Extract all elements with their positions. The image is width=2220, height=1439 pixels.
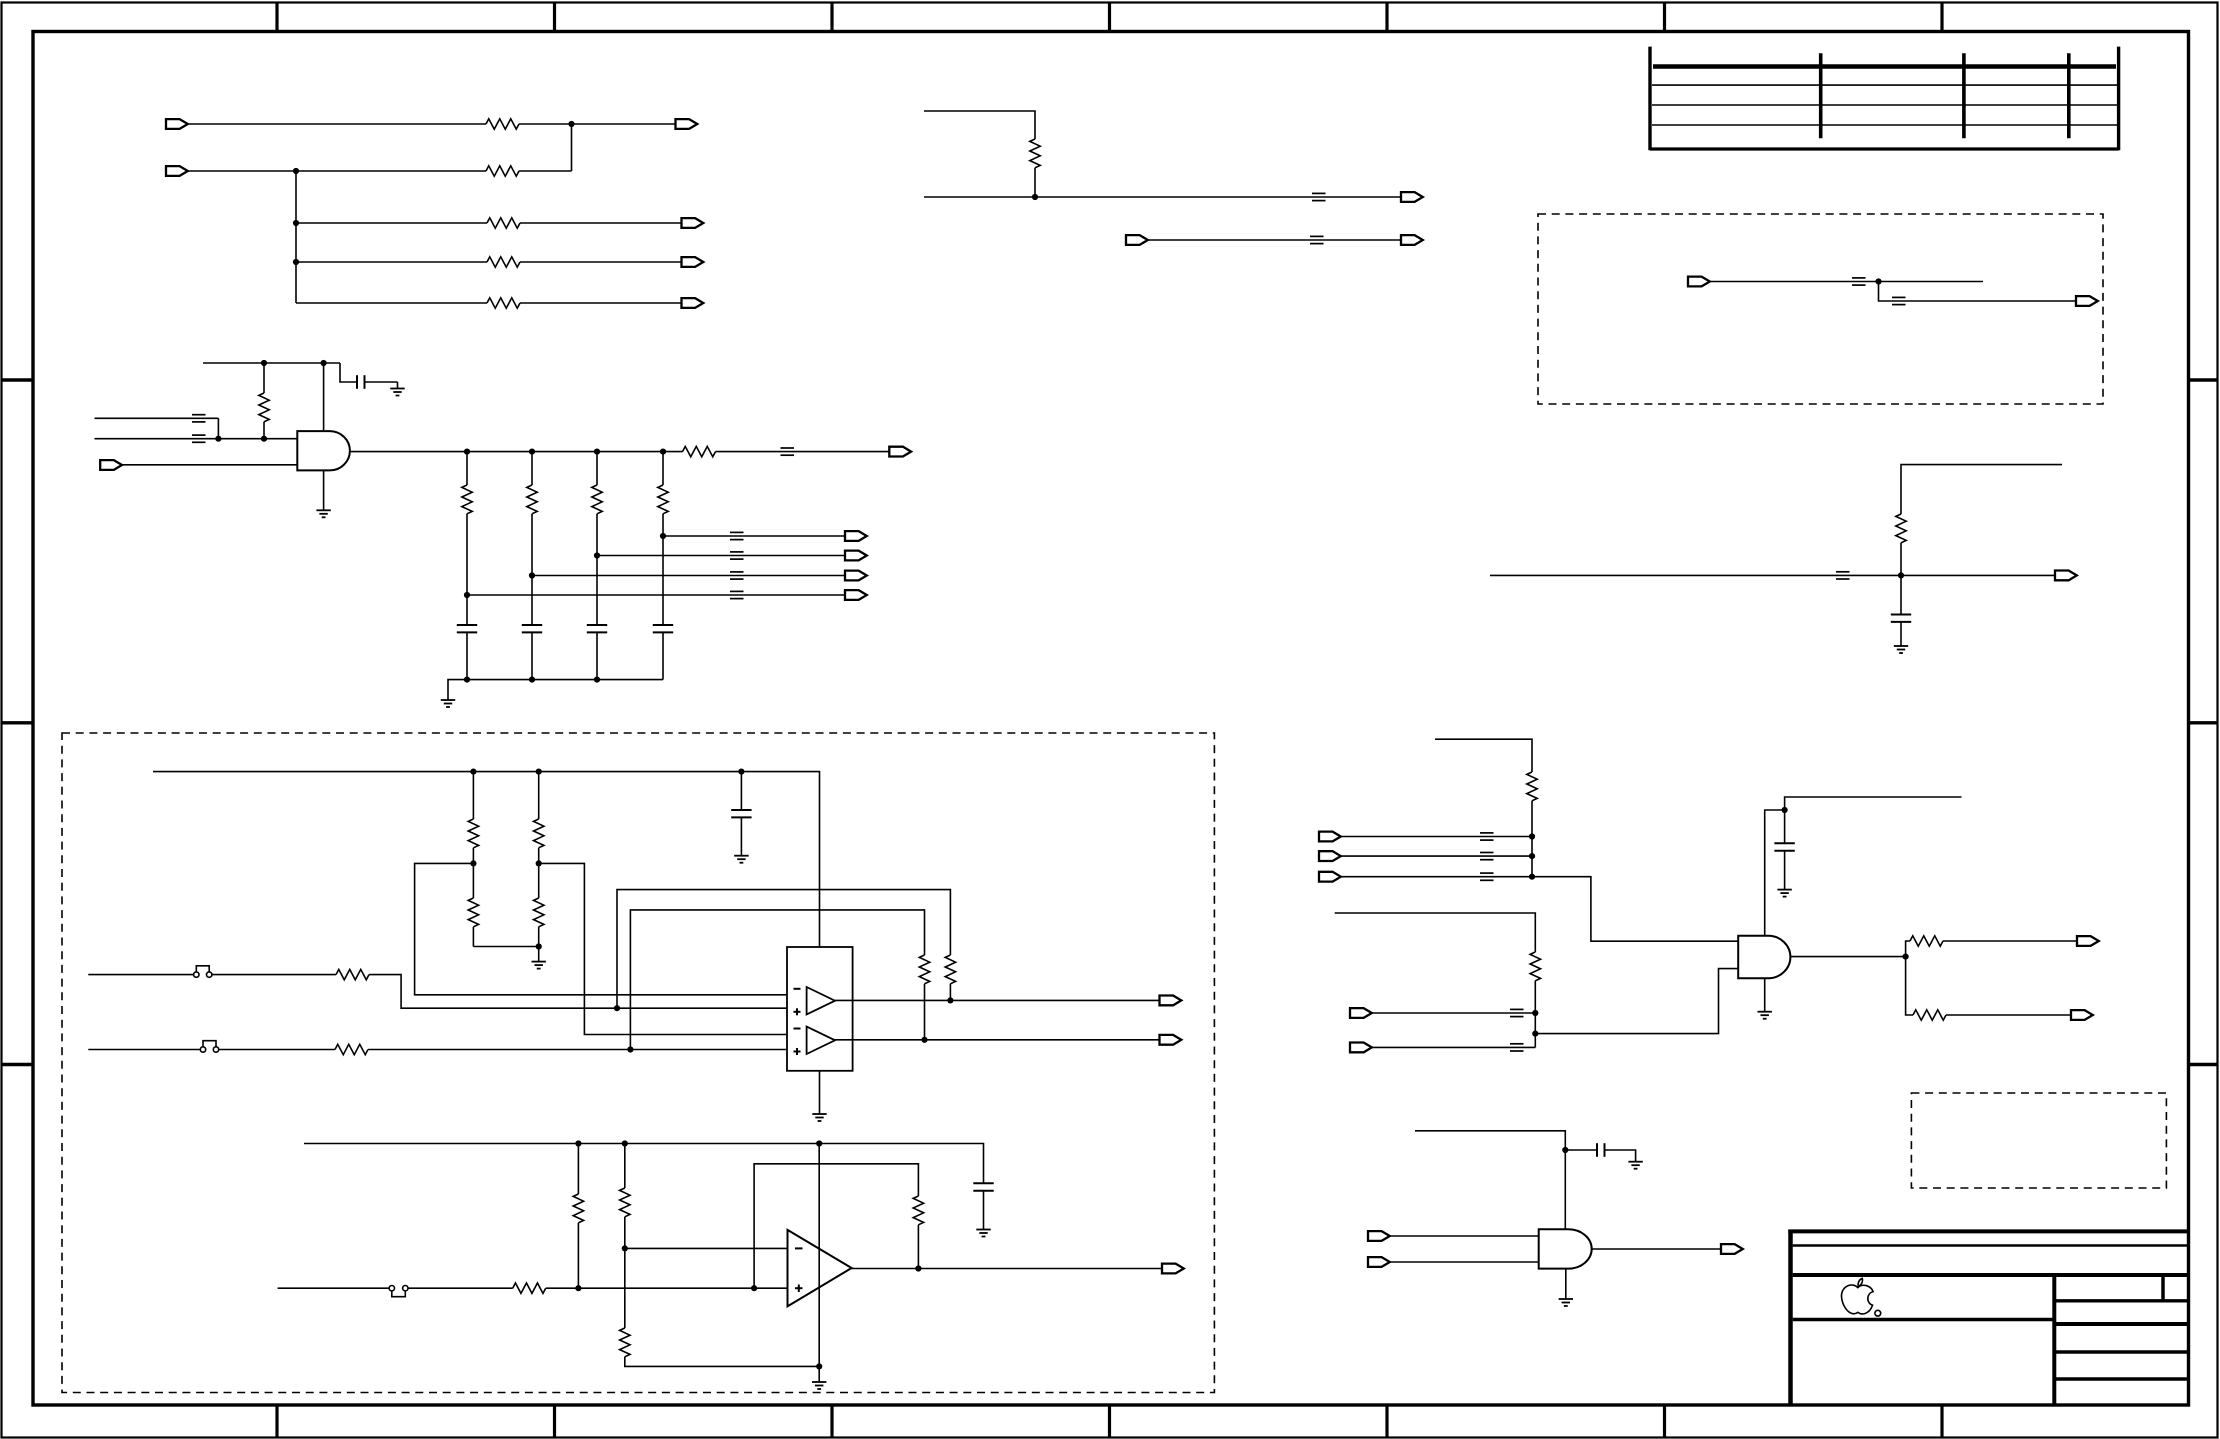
wire U1 ground pin <box>323 470 325 510</box>
net label mark bd1 <box>1480 833 1494 840</box>
node U2 vcc junction <box>1782 807 1788 813</box>
connector flag J29 <box>1368 1231 1390 1241</box>
Apple logo <box>1841 1278 1880 1316</box>
connector flag J12 <box>889 447 911 457</box>
wire U3B output <box>835 1039 1160 1041</box>
net label mark box2a <box>1852 278 1866 285</box>
resistor R17 <box>1913 1010 1946 1020</box>
node top mid junction <box>1032 194 1038 200</box>
wire switch row A lead <box>88 974 193 976</box>
node rail2 junction 1 <box>575 1140 581 1146</box>
resistor R13 <box>1896 514 1906 543</box>
AND gate U5 <box>1539 1229 1592 1268</box>
ground ladder <box>441 700 455 707</box>
zone tick right 1 <box>2189 378 2218 381</box>
revision table column bar 1 <box>1819 53 1823 138</box>
wire pullup drop <box>263 363 265 393</box>
connector flag J20 <box>1319 851 1341 861</box>
node ina junction <box>1532 1010 1538 1016</box>
wire ladder drop 2 <box>531 452 533 485</box>
net label mark row4 <box>730 591 744 598</box>
node rail junction 1 <box>470 769 476 775</box>
wire out up leg <box>1906 941 1910 957</box>
wire rmid to cap <box>1900 575 1902 614</box>
zone tick left 3 <box>2 1063 34 1066</box>
resistor R15 <box>1530 952 1540 981</box>
resistor R26 <box>573 1194 583 1223</box>
wire R9 to cap <box>596 514 598 625</box>
node plus1 junction <box>614 1005 620 1011</box>
zone tick bottom 6 <box>1663 1405 1666 1438</box>
wire C7 to ground <box>1784 851 1786 890</box>
connector flag J2 <box>676 119 698 129</box>
wire U2 power pin <box>1765 810 1785 936</box>
zone tick right 2 <box>2189 721 2218 724</box>
node VCC2 junction <box>321 360 327 366</box>
wire J29 to gate3 <box>1390 1235 1539 1237</box>
revision table column bar 2 <box>1962 53 1966 138</box>
resistor R16 <box>1910 936 1943 946</box>
zone tick top 3 <box>830 3 833 32</box>
wire R25 to out2 <box>924 984 926 1040</box>
U3B minus label <box>794 1028 801 1030</box>
node minus junction <box>622 1245 628 1251</box>
wire U1 output bus <box>350 451 663 453</box>
resistor R14 <box>1527 772 1537 801</box>
wire bus to ground <box>538 947 540 962</box>
net label mark mid1 <box>1312 193 1326 200</box>
resistor R24 <box>335 1044 368 1054</box>
connector flag J27 <box>1160 1035 1182 1045</box>
connector flag J13 <box>1401 192 1423 202</box>
wire U3A output <box>835 999 1160 1001</box>
resistor R3 <box>487 218 520 228</box>
wire U2 ground pin <box>1764 978 1766 1012</box>
switch SW3 <box>389 1286 408 1297</box>
wire C3 to bus <box>531 632 533 679</box>
node L4 junction <box>660 449 666 455</box>
title block right column row rule 4 <box>2054 1377 2188 1380</box>
wire R19 to bus <box>472 927 474 947</box>
zone tick top 5 <box>1385 3 1388 32</box>
wire out down leg <box>1906 957 1913 1015</box>
wire rail to cap C8 <box>740 772 742 810</box>
connector flag J8 <box>845 531 867 541</box>
wire U5 output <box>1592 1248 1721 1250</box>
node row4 tap junction <box>464 592 470 598</box>
wire tap row3 <box>532 575 845 577</box>
wire bundle row1 <box>1341 836 1532 838</box>
wire net A5 <box>296 302 487 304</box>
resistor R28 <box>620 1328 630 1357</box>
connector flag J6 <box>682 298 704 308</box>
node rmid junction <box>1898 572 1904 578</box>
wire opamp1 vcc rail <box>153 772 820 947</box>
wire R23 to out1 <box>949 984 951 1001</box>
wire R20 to mid <box>538 848 540 898</box>
wire R11 to flag <box>716 451 890 453</box>
wire tap row1 <box>663 535 845 537</box>
connector flag J15 <box>1401 235 1423 245</box>
wire R8 to cap <box>531 514 533 625</box>
U3A plus label <box>794 1008 801 1015</box>
wire ladder drop 3 <box>596 452 598 485</box>
resistor R8 <box>527 485 537 514</box>
node gate3 vcc junction <box>1562 1147 1568 1153</box>
wire net label stub A <box>95 417 219 419</box>
wire R7 to cap <box>466 514 468 625</box>
capacitor C9 <box>973 1183 993 1190</box>
wire riser node A <box>571 124 573 171</box>
wire branch R26 top <box>577 1144 579 1195</box>
node B3 junction <box>293 259 299 265</box>
connector flag J19 <box>1319 832 1341 842</box>
connector flag J30 <box>1368 1257 1390 1267</box>
wire VCC rail gate1 <box>203 362 340 364</box>
resistor R1 <box>486 119 519 129</box>
node gnd bus junction <box>536 943 542 949</box>
ground C7 <box>1777 890 1791 897</box>
wire bd3 to gate2 in1 <box>1532 877 1738 942</box>
dashed box bottom right <box>1911 1093 2166 1188</box>
wire R2 to riser <box>519 170 572 172</box>
wire J7 to gate <box>122 464 297 466</box>
net label mark box2b <box>1892 297 1906 304</box>
zone tick left 1 <box>2 378 34 381</box>
wire R6 to net B <box>263 422 265 439</box>
wire bundle row2 <box>1341 855 1532 857</box>
wire C5 to bus <box>662 632 664 679</box>
wire switch row C lead <box>278 1287 390 1289</box>
wire right mid top <box>1901 465 2062 514</box>
connector flag J21 <box>1319 872 1341 882</box>
capacitor C10 <box>1597 1143 1605 1157</box>
resistor R21 <box>534 898 544 927</box>
op-amp U3 package <box>787 947 853 1071</box>
wire in row a <box>1372 1012 1536 1014</box>
title block upper rule <box>1793 1244 2189 1247</box>
node L3 junction <box>594 449 600 455</box>
wire tap row2 <box>597 555 845 557</box>
wire R18 to mid <box>472 848 474 898</box>
wire vcc to cap C10 <box>1565 1149 1597 1151</box>
wire branch R27 top <box>624 1144 626 1189</box>
wire net A2 <box>188 170 486 172</box>
wire vcc top stub <box>1785 797 1962 810</box>
node bd3 junction <box>1529 874 1535 880</box>
resistor R30 <box>913 1196 923 1225</box>
connector flag J31 <box>1721 1244 1743 1254</box>
title block right column row rule 3 <box>2054 1350 2188 1353</box>
wire R28 to gnd bus <box>625 1357 819 1367</box>
wire gate2 pullup top <box>1435 739 1532 772</box>
node U2 out junction <box>1903 954 1909 960</box>
node bus junction 1 <box>464 677 470 683</box>
node bus junction 2 <box>529 677 535 683</box>
wire R21 to bus <box>538 927 540 947</box>
wire net A4 <box>296 261 487 263</box>
zone tick bottom 7 <box>1940 1405 1943 1438</box>
wire gate3 vcc top <box>1415 1131 1565 1229</box>
AND gate U2 <box>1738 936 1790 978</box>
zone tick right 3 <box>2189 1063 2218 1066</box>
title block top edge <box>1788 1229 2188 1233</box>
wire ladder ground bus <box>448 680 663 700</box>
net label mark ina <box>1510 1009 1524 1016</box>
wire U1 power pin <box>323 363 325 431</box>
ground U1 <box>316 510 330 517</box>
wire R10 to cap <box>662 514 664 625</box>
AND gate U1 <box>297 431 350 470</box>
title block heavy divider <box>1793 1273 2189 1277</box>
wire divider1 top <box>472 772 474 819</box>
node rail2 junction 3 <box>816 1140 822 1146</box>
net label mark inb <box>1510 1044 1524 1051</box>
resistor R20 <box>534 819 544 848</box>
revision table row rule 3 <box>1652 124 2117 126</box>
ground U2 <box>1758 1012 1772 1019</box>
wire stub A drop <box>217 418 219 438</box>
wire ladder drop 4 <box>662 452 664 485</box>
connector flag J10 <box>845 571 867 581</box>
connector flag J11 <box>845 590 867 600</box>
capacitor C1 <box>357 375 365 389</box>
node plus row junction 1 <box>575 1285 581 1291</box>
ground U5 <box>1559 1299 1573 1306</box>
wire R22 to plus1 <box>369 975 787 1009</box>
capacitor C6 <box>1891 615 1911 622</box>
wire net A1 <box>188 123 486 125</box>
zone tick top 2 <box>553 3 556 32</box>
wire C8 to ground <box>740 817 742 855</box>
wire C9 to ground <box>983 1191 985 1230</box>
zone tick left 2 <box>2 721 34 724</box>
node plus2 junction <box>627 1046 633 1052</box>
wire R12 to net <box>1034 168 1036 197</box>
ground C10 <box>1628 1162 1642 1169</box>
op-amp U4 triangle <box>788 1230 852 1307</box>
wire SW3 to R29 <box>408 1287 513 1289</box>
node rail junction 2 <box>536 769 542 775</box>
wire R15 to node <box>1534 981 1536 1048</box>
wire div ground bus <box>473 946 538 948</box>
wire R5 to flag <box>520 302 682 304</box>
connector flag J14 <box>1126 235 1148 245</box>
capacitor C4 <box>587 625 607 632</box>
node netB junction 2 <box>261 436 267 442</box>
wire U1 out to R11 <box>663 451 683 453</box>
zone tick bottom 2 <box>553 1405 556 1438</box>
zone tick bottom 4 <box>1108 1405 1111 1438</box>
revision table row rule 2 <box>1652 104 2117 106</box>
capacitor C5 <box>653 625 673 632</box>
wire tap row4 <box>467 594 845 596</box>
zone tick top 1 <box>275 3 278 32</box>
dashed box top right <box>1538 214 2103 404</box>
node out1 junction <box>947 997 953 1003</box>
net label mark row3 <box>730 572 744 579</box>
switch SW1 <box>194 966 212 978</box>
wire in row b <box>1372 1046 1536 1048</box>
wire C4 to bus <box>596 632 598 679</box>
node A junction <box>568 121 574 127</box>
capacitor C2 <box>457 625 477 632</box>
node div2 mid junction <box>536 860 542 866</box>
node box2 junction <box>1875 278 1881 284</box>
connector flag J16 <box>1688 277 1710 287</box>
node bd2 junction <box>1529 853 1535 859</box>
revision table left bar <box>1648 47 1651 151</box>
node gnd bus2 junction <box>816 1363 822 1369</box>
zone tick bottom 1 <box>275 1405 278 1438</box>
node inab junction <box>1532 1031 1538 1037</box>
connector flag J3 <box>166 166 188 176</box>
ground U3 <box>812 1114 826 1121</box>
wire div1 tap to minus1 <box>415 863 787 994</box>
net label mark row1 <box>730 532 744 539</box>
title block left edge <box>1788 1230 1793 1406</box>
title block right column row rule 1 <box>2054 1299 2188 1302</box>
node B2 junction <box>293 220 299 226</box>
wire R16 to flag <box>1943 940 2077 942</box>
title block right column row rule 2 <box>2054 1322 2188 1326</box>
zone tick top 7 <box>1940 3 1943 32</box>
node B junction <box>293 168 299 174</box>
wire C6 to ground <box>1900 622 1902 646</box>
wire feedback2 <box>630 910 924 1050</box>
node netB junction 1 <box>215 436 221 442</box>
zone tick bottom 3 <box>830 1405 833 1438</box>
node row1 tap junction <box>660 533 666 539</box>
revision table bottom rule <box>1650 147 2119 150</box>
wire node to gate2 in2 <box>1535 969 1738 1034</box>
revision table row rule 1 <box>1652 84 2117 86</box>
zone tick top 6 <box>1663 3 1666 32</box>
wire ladder drop 1 <box>466 452 468 485</box>
title block right column divider <box>2052 1275 2056 1405</box>
connector flag J23 <box>1350 1043 1372 1053</box>
ground divider2 <box>812 1382 826 1389</box>
net label mark bd2 <box>1480 853 1494 860</box>
resistor R7 <box>462 485 472 514</box>
resistor R12 <box>1030 139 1040 168</box>
net label mark bd3 <box>1480 873 1494 880</box>
connector flag J28 <box>1162 1264 1184 1274</box>
wire R4 to flag <box>520 261 682 263</box>
wire R3 to flag <box>520 222 682 224</box>
connector flag J24 <box>2077 936 2099 946</box>
connector flag J1 <box>166 119 188 129</box>
connector flag J17 <box>2076 296 2098 306</box>
wire box2 net1 <box>1710 281 1983 283</box>
wire U2 output <box>1790 956 1905 958</box>
wire divider2 top <box>538 772 540 819</box>
revision table heavy top rule <box>1653 64 2116 69</box>
wire R14 to bundle <box>1531 801 1533 877</box>
wire bundle row3 <box>1341 876 1532 878</box>
wire U4 power rail drop <box>818 1144 820 1367</box>
resistor R11 <box>683 446 716 456</box>
wire R30 to out <box>917 1225 919 1269</box>
resistor R22 <box>336 969 369 979</box>
dashed box sensor section <box>62 733 1214 1393</box>
node plus row junction 2 <box>751 1285 757 1291</box>
node rail2 junction 2 <box>622 1140 628 1146</box>
ground divider <box>532 962 546 969</box>
U3A minus label <box>794 988 801 990</box>
zone tick bottom 5 <box>1385 1405 1388 1438</box>
op-amp U3A triangle <box>807 987 835 1014</box>
resistor R6 pull-up <box>259 393 269 422</box>
wire R24 to plus2 <box>368 1049 787 1051</box>
ground C9 <box>976 1230 990 1237</box>
wire U4 output <box>852 1268 1162 1270</box>
connector flag J7 <box>100 460 122 470</box>
wire feedback1 <box>617 890 950 1009</box>
connector flag J9 <box>845 551 867 561</box>
capacitor C7 <box>1774 843 1794 850</box>
node VCC1 junction <box>261 360 267 366</box>
wire C1 to ground <box>365 381 398 383</box>
net label mark out <box>781 448 795 455</box>
switch SW2 <box>200 1041 218 1053</box>
wire mid2 <box>1148 239 1401 241</box>
wire R17 to flag <box>1946 1014 2071 1016</box>
wire box2 drop <box>1879 282 2077 302</box>
wire top mid net <box>924 196 1401 198</box>
wire J30 to gate3 <box>1390 1261 1539 1263</box>
node bus junction 3 <box>594 677 600 683</box>
resistor R5 <box>487 298 520 308</box>
ground C6 <box>1894 646 1908 653</box>
ground C8 <box>734 856 748 863</box>
wire U3 ground pin <box>819 1071 821 1114</box>
U4 minus label <box>795 1247 803 1249</box>
wire net A3 <box>296 222 487 224</box>
connector flag J4 <box>682 218 704 228</box>
resistor R29 <box>513 1283 546 1293</box>
wire right mid net <box>1490 574 2055 576</box>
connector flag J25 <box>2071 1010 2093 1020</box>
net label mark A <box>192 415 206 422</box>
wire R26 to plus <box>577 1223 579 1288</box>
net label mark mid2 <box>1310 236 1324 243</box>
resistor R19 <box>468 898 478 927</box>
wire C2 to bus <box>466 632 468 679</box>
wire switch row B lead <box>88 1049 200 1051</box>
title block small cell divider <box>2161 1275 2165 1301</box>
connector flag J5 <box>682 257 704 267</box>
wire VCC to cap C1 <box>340 363 357 382</box>
wire opamp2 vcc rail <box>304 1144 984 1184</box>
wire minus row <box>625 1247 788 1249</box>
resistor R23 <box>945 955 955 984</box>
node L1 junction <box>464 449 470 455</box>
wire bus drop <box>295 171 297 303</box>
U4 plus label <box>795 1285 803 1293</box>
net label mark row2 <box>730 552 744 559</box>
node L2 junction <box>529 449 535 455</box>
wire div2 tap to minus2 <box>539 863 787 1034</box>
wire net B into gate <box>95 438 298 440</box>
wire C10 to ground <box>1605 1150 1636 1162</box>
wire R1 to node A <box>519 123 676 125</box>
node out2 junction <box>921 1037 927 1043</box>
net label mark rmid <box>1836 572 1850 579</box>
title block logo row bottom rule <box>1793 1318 2055 1322</box>
wire divider top feed <box>1335 913 1536 952</box>
node row2 tap junction <box>594 552 600 558</box>
